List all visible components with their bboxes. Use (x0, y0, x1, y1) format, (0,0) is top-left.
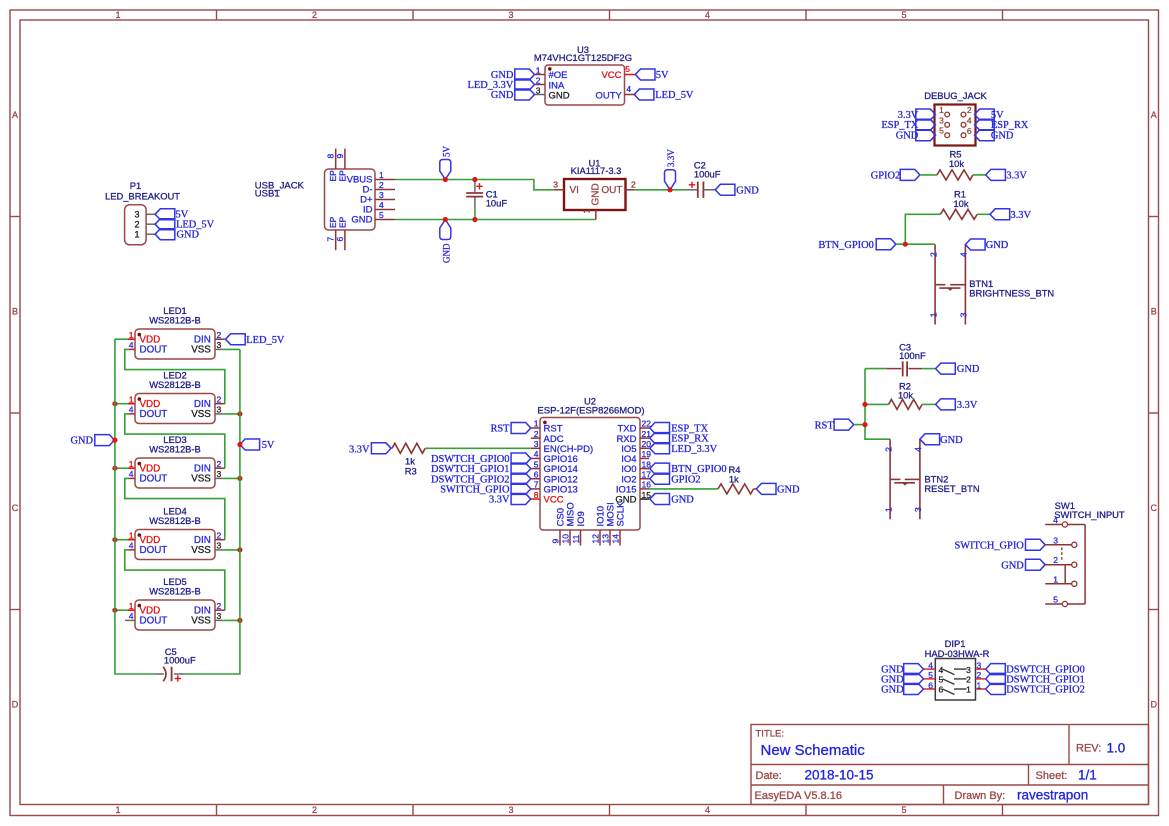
svg-text:3: 3 (217, 611, 222, 621)
svg-text:3: 3 (508, 805, 513, 815)
svg-text:LED_5V: LED_5V (246, 335, 285, 346)
svg-text:D: D (12, 700, 19, 710)
svg-text:GPIO2: GPIO2 (871, 170, 900, 181)
svg-text:4: 4 (534, 449, 539, 459)
svg-text:3.3V: 3.3V (1011, 210, 1032, 221)
svg-text:Date:: Date: (756, 770, 782, 782)
svg-text:GND: GND (591, 183, 602, 205)
svg-text:3: 3 (217, 469, 222, 479)
svg-text:DEBUG_JACK: DEBUG_JACK (924, 90, 987, 101)
svg-text:Sheet:: Sheet: (1036, 770, 1068, 782)
svg-text:GND: GND (549, 90, 570, 101)
svg-text:5V: 5V (262, 440, 275, 451)
svg-text:3.3V: 3.3V (1006, 170, 1027, 181)
svg-text:VSS: VSS (191, 545, 211, 556)
svg-text:1: 1 (1053, 574, 1058, 584)
svg-text:4: 4 (959, 252, 969, 257)
svg-text:3.3V: 3.3V (666, 149, 676, 167)
svg-text:4: 4 (129, 611, 134, 621)
svg-text:GND: GND (986, 240, 1009, 251)
svg-text:SWITCH_INPUT: SWITCH_INPUT (1054, 509, 1125, 520)
svg-text:ESP_TX: ESP_TX (881, 120, 918, 131)
svg-text:RST: RST (490, 424, 510, 435)
svg-text:3: 3 (913, 507, 923, 512)
svg-text:DSWTCH_GPIO2: DSWTCH_GPIO2 (1006, 684, 1085, 695)
svg-text:4: 4 (705, 805, 710, 815)
svg-text:R3: R3 (405, 466, 417, 477)
svg-text:6: 6 (335, 237, 345, 242)
svg-text:2: 2 (967, 105, 972, 115)
svg-text:1: 1 (534, 419, 539, 429)
svg-text:DOUT: DOUT (140, 474, 168, 485)
svg-text:4: 4 (967, 116, 972, 126)
svg-text:EasyEDA V5.8.16: EasyEDA V5.8.16 (755, 790, 842, 802)
svg-text:GND: GND (351, 215, 372, 226)
svg-text:10k: 10k (949, 158, 964, 169)
svg-text:2: 2 (966, 675, 971, 685)
svg-text:2: 2 (928, 252, 938, 257)
svg-text:8: 8 (534, 490, 539, 500)
svg-text:3: 3 (966, 665, 971, 675)
svg-text:3.3V: 3.3V (957, 400, 978, 411)
svg-text:GND: GND (70, 436, 93, 447)
svg-text:1: 1 (582, 209, 592, 214)
svg-text:1000uF: 1000uF (164, 655, 196, 666)
svg-text:6: 6 (967, 126, 972, 136)
svg-text:19: 19 (642, 449, 652, 459)
svg-text:3: 3 (553, 179, 558, 189)
svg-text:10k: 10k (953, 198, 968, 209)
svg-text:2: 2 (134, 219, 139, 229)
svg-text:5: 5 (901, 805, 906, 815)
svg-text:DOUT: DOUT (140, 345, 168, 356)
svg-text:3.3V: 3.3V (489, 495, 510, 506)
svg-text:GND: GND (881, 684, 904, 695)
svg-text:7: 7 (534, 480, 539, 490)
svg-text:1: 1 (966, 685, 971, 695)
svg-text:WS2812B-B: WS2812B-B (149, 315, 201, 326)
svg-text:2: 2 (217, 330, 222, 340)
svg-text:1: 1 (536, 65, 541, 75)
svg-text:3: 3 (977, 660, 982, 670)
svg-text:4: 4 (129, 340, 134, 350)
svg-text:VSS: VSS (191, 345, 211, 356)
svg-text:3: 3 (1053, 535, 1058, 545)
svg-text:4: 4 (626, 84, 631, 94)
svg-text:GND: GND (736, 185, 759, 196)
svg-text:VCC: VCC (544, 495, 564, 506)
svg-text:WS2812B-B: WS2812B-B (149, 444, 201, 455)
svg-text:5: 5 (625, 64, 630, 74)
svg-text:MISO: MISO (566, 502, 577, 526)
svg-text:GND: GND (1001, 560, 1024, 571)
svg-text:C: C (1151, 503, 1158, 513)
svg-text:5V: 5V (442, 146, 452, 158)
svg-text:6: 6 (928, 680, 933, 690)
svg-text:10: 10 (561, 534, 571, 544)
svg-text:GND: GND (177, 230, 200, 241)
svg-text:LED_5V: LED_5V (655, 90, 694, 101)
svg-text:3: 3 (939, 115, 944, 125)
svg-text:3: 3 (217, 405, 222, 415)
svg-text:1: 1 (129, 459, 134, 469)
svg-text:2: 2 (536, 75, 541, 85)
svg-text:VSS: VSS (191, 616, 211, 627)
svg-text:A: A (1151, 110, 1157, 120)
svg-text:IO9: IO9 (576, 511, 587, 526)
svg-text:3.3V: 3.3V (349, 445, 370, 456)
svg-text:1: 1 (129, 601, 134, 611)
svg-text:WS2812B-B: WS2812B-B (149, 515, 201, 526)
svg-text:D: D (1151, 700, 1158, 710)
svg-text:#OE: #OE (549, 70, 568, 81)
svg-text:B: B (12, 307, 18, 317)
svg-text:New Schematic: New Schematic (761, 742, 866, 759)
svg-text:1k: 1k (729, 474, 739, 485)
svg-text:2: 2 (883, 447, 893, 452)
svg-text:DOUT: DOUT (140, 545, 168, 556)
svg-text:1/1: 1/1 (1078, 768, 1097, 783)
svg-text:100uF: 100uF (694, 168, 721, 179)
svg-text:ESP-12F(ESP8266MOD): ESP-12F(ESP8266MOD) (537, 405, 644, 416)
svg-text:1: 1 (939, 105, 944, 115)
svg-text:3: 3 (508, 10, 513, 20)
svg-text:RST: RST (815, 421, 835, 432)
svg-text:1: 1 (977, 680, 982, 690)
svg-text:USB1: USB1 (255, 189, 280, 200)
svg-text:GPIO2: GPIO2 (671, 474, 700, 485)
svg-text:3: 3 (959, 312, 969, 317)
svg-text:M74VHC1GT125DF2G: M74VHC1GT125DF2G (534, 53, 632, 64)
svg-text:HAD-03HWA-R: HAD-03HWA-R (925, 648, 990, 659)
svg-text:4: 4 (913, 447, 923, 452)
svg-text:1: 1 (129, 330, 134, 340)
svg-text:1: 1 (129, 394, 134, 404)
svg-text:VI: VI (570, 185, 579, 196)
svg-text:5: 5 (1053, 595, 1058, 605)
svg-text:1: 1 (379, 170, 384, 180)
svg-text:4: 4 (129, 405, 134, 415)
svg-text:P1: P1 (130, 180, 141, 191)
svg-text:5: 5 (901, 10, 906, 20)
svg-text:4: 4 (379, 200, 384, 210)
svg-text:GND: GND (940, 435, 963, 446)
svg-text:BRIGHTNESS_BTN: BRIGHTNESS_BTN (969, 288, 1054, 299)
svg-text:2: 2 (379, 180, 384, 190)
svg-text:5V: 5V (656, 70, 669, 81)
svg-text:2: 2 (534, 429, 539, 439)
svg-text:TITLE:: TITLE: (756, 729, 785, 740)
svg-text:3: 3 (379, 190, 384, 200)
svg-text:3: 3 (134, 210, 139, 220)
svg-text:9: 9 (551, 539, 561, 544)
svg-text:1.0: 1.0 (1107, 741, 1126, 756)
svg-text:3: 3 (217, 340, 222, 350)
svg-text:10uF: 10uF (486, 198, 508, 209)
svg-text:RESET_BTN: RESET_BTN (924, 483, 979, 494)
svg-text:14: 14 (611, 534, 621, 544)
svg-text:VSS: VSS (191, 409, 211, 420)
svg-text:ESP_RX: ESP_RX (991, 120, 1029, 131)
svg-text:BTN_GPIO0: BTN_GPIO0 (818, 240, 873, 251)
svg-text:2: 2 (312, 10, 317, 20)
svg-text:1: 1 (883, 507, 893, 512)
svg-text:2: 2 (977, 670, 982, 680)
svg-text:5: 5 (534, 459, 539, 469)
svg-text:C: C (12, 503, 19, 513)
svg-text:6: 6 (534, 469, 539, 479)
svg-text:GND: GND (491, 90, 514, 101)
svg-text:2: 2 (1053, 555, 1058, 565)
svg-text:WS2812B-B: WS2812B-B (149, 586, 201, 597)
svg-text:GND: GND (671, 495, 694, 506)
svg-text:GND: GND (777, 485, 800, 496)
svg-text:4: 4 (1053, 515, 1058, 525)
svg-text:WS2812B-B: WS2812B-B (149, 379, 201, 390)
svg-text:REV:: REV: (1076, 743, 1101, 755)
svg-text:3: 3 (536, 85, 541, 95)
svg-text:4: 4 (705, 10, 710, 20)
svg-text:GND: GND (442, 243, 452, 263)
svg-text:12: 12 (591, 534, 601, 544)
svg-text:1: 1 (129, 530, 134, 540)
svg-text:1: 1 (115, 805, 120, 815)
svg-text:13: 13 (601, 534, 611, 544)
svg-text:LED_BREAKOUT: LED_BREAKOUT (105, 191, 180, 202)
svg-text:2: 2 (217, 459, 222, 469)
svg-text:SCLK: SCLK (616, 501, 627, 526)
svg-text:SWITCH_GPIO: SWITCH_GPIO (955, 540, 1025, 551)
svg-text:OUTY: OUTY (596, 90, 623, 101)
svg-text:KIA1117-3.3: KIA1117-3.3 (571, 165, 622, 176)
svg-text:GND: GND (896, 131, 919, 142)
svg-text:3: 3 (217, 541, 222, 551)
svg-text:B: B (1151, 307, 1157, 317)
svg-text:3: 3 (534, 439, 539, 449)
svg-text:DOUT: DOUT (140, 616, 168, 627)
svg-text:OUT: OUT (601, 185, 622, 196)
svg-text:100nF: 100nF (899, 350, 926, 361)
svg-text:EP: EP (337, 216, 347, 228)
svg-text:11: 11 (571, 534, 581, 543)
svg-text:5: 5 (379, 210, 384, 220)
svg-text:ravestrapon: ravestrapon (1017, 787, 1088, 802)
svg-text:GND: GND (957, 364, 980, 375)
svg-text:2: 2 (217, 530, 222, 540)
svg-text:VCC: VCC (601, 70, 621, 81)
svg-text:10k: 10k (898, 390, 913, 401)
svg-text:4: 4 (129, 541, 134, 551)
svg-text:4: 4 (129, 469, 134, 479)
svg-text:VSS: VSS (191, 474, 211, 485)
svg-text:9: 9 (335, 154, 345, 159)
svg-text:LED_3.3V: LED_3.3V (671, 444, 717, 455)
svg-text:2: 2 (217, 601, 222, 611)
svg-text:2: 2 (217, 394, 222, 404)
svg-text:1: 1 (928, 312, 938, 317)
svg-text:5: 5 (939, 126, 944, 136)
svg-text:4: 4 (928, 660, 933, 670)
svg-text:GND: GND (991, 131, 1014, 142)
svg-text:2: 2 (631, 179, 636, 189)
svg-text:A: A (12, 110, 18, 120)
svg-text:2018-10-15: 2018-10-15 (805, 768, 874, 783)
svg-text:1: 1 (115, 10, 120, 20)
svg-text:5: 5 (928, 670, 933, 680)
svg-text:Drawn By:: Drawn By: (955, 790, 1006, 802)
svg-text:DOUT: DOUT (140, 409, 168, 420)
svg-text:2: 2 (312, 805, 317, 815)
svg-text:1: 1 (134, 229, 139, 239)
